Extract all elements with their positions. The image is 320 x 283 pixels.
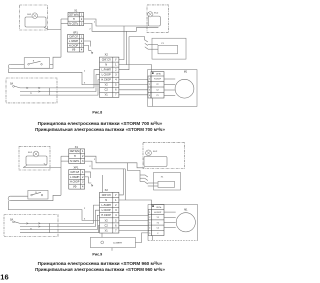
svg-text:Принципова електросхема витяжк: Принципова електросхема витяжки «STORM 7… (38, 121, 163, 126)
wire X2 row8 to motor pin4 sch2 (119, 230, 148, 232)
wire starter to motor pin5 (135, 233, 148, 243)
lamp EL2 (148, 12, 159, 17)
svg-text:L ЛАМП: L ЛАМП (101, 68, 111, 72)
wire mains long run to X2 sch2 (8, 201, 99, 221)
svg-text:N СЕТЬ: N СЕТЬ (69, 22, 79, 25)
svg-text:S: S (33, 61, 35, 63)
svg-text:5: 5 (115, 83, 117, 87)
caption 2 russian (35, 267, 165, 272)
svg-text:Х2: Х2 (105, 53, 109, 57)
lamp EL3 enclosure (dash-dot box) (19, 147, 50, 170)
wire drop to X2 row1 (119, 26, 124, 60)
motor M1 (175, 71, 194, 98)
svg-text:2: 2 (84, 71, 86, 73)
svg-text:L СКОР: L СКОР (102, 208, 111, 212)
speed switch SA (10, 83, 50, 96)
wire X2 row6 to motor pin2 sch2 (119, 219, 148, 221)
wire drop to X2 row2 and motor header sch2 (119, 169, 152, 205)
caption 1 russian (35, 127, 165, 132)
svg-text:У2: У2 (105, 218, 109, 222)
svg-text:L ЛАМП: L ЛАМП (70, 176, 79, 179)
wire X2 row7 to motor pin3 (119, 89, 148, 91)
svg-text:Х1: Х1 (74, 8, 78, 12)
node 2 (89, 29, 91, 31)
fan motor box M1 (148, 70, 197, 107)
lamp switch S box sch2 (28, 190, 48, 199)
svg-text:N: N (105, 63, 107, 67)
connector XP1 (68, 30, 84, 52)
svg-text:5: 5 (149, 233, 150, 235)
fan motor box M1 sch2 (148, 205, 198, 241)
svg-text:У1: У1 (105, 228, 109, 232)
relay contacts sch2 (145, 175, 158, 186)
node 3b (84, 83, 86, 85)
wire XP1 outputs (84, 41, 94, 54)
wire drop to X2 row2 and motor header (119, 31, 152, 71)
svg-text:L СКОР: L СКОР (102, 73, 111, 77)
wire SA speed2 to X2 sch2 (50, 210, 100, 226)
wire EL3 exit (23, 165, 61, 167)
page number (0, 272, 8, 281)
wire X2 row5 to motor pin1 sch2 (119, 214, 148, 216)
caption 2 ukrainian (38, 261, 163, 266)
svg-text:Сн.ВЕНТ: Сн.ВЕНТ (113, 242, 123, 244)
figure 9 label (92, 253, 102, 257)
wire switch right (50, 63, 53, 65)
svg-text:2: 2 (81, 40, 83, 43)
svg-text:3: 3 (84, 83, 86, 85)
svg-text:4: 4 (115, 213, 117, 217)
wire SA speed1 to X2 sch2 (50, 205, 100, 223)
svg-text:С2: С2 (105, 88, 109, 92)
svg-text:EL1: EL1 (28, 152, 33, 154)
svg-text:4: 4 (82, 186, 84, 189)
svg-text:М1: М1 (184, 71, 188, 73)
svg-text:У1: У1 (156, 95, 158, 97)
svg-text:У: У (115, 58, 117, 62)
wire X2 row6 to motor pin2 (119, 84, 148, 86)
svg-text:Х1: Х1 (75, 145, 79, 149)
wire EL1 exit (44, 27, 61, 29)
connector X1 (68, 8, 84, 25)
svg-text:2: 2 (89, 166, 91, 168)
wire mains long run to X2 (8, 68, 99, 84)
wire node to X1 sch2 (61, 156, 69, 167)
wire switch loop to mains (8, 30, 61, 69)
svg-text:2: 2 (82, 176, 84, 179)
lamp EL4 wiring loop (144, 157, 167, 167)
svg-text:5: 5 (115, 218, 117, 222)
svg-text:Рис.9: Рис.9 (92, 253, 102, 257)
wire riser to relay contact (129, 37, 145, 41)
wires motor connector to motor (164, 79, 175, 95)
svg-text:УФ: УФ (72, 49, 76, 52)
svg-text:С2: С2 (157, 228, 159, 230)
wire drop to X2 row1 sch2 (119, 169, 123, 195)
lamp EL2 enclosure (dash-dot box) (147, 5, 169, 33)
connector X2 (100, 53, 119, 98)
lamp EL3 wiring loop (26, 156, 47, 165)
svg-text:СИГ.СЛ: СИГ.СЛ (102, 193, 111, 197)
svg-text:1: 1 (82, 171, 84, 174)
wire X1 pin2 to lamp EL2 feed (84, 19, 149, 26)
svg-text:16: 16 (0, 272, 8, 281)
svg-text:П: П (30, 228, 32, 230)
svg-text:С2: С2 (105, 223, 109, 227)
wire X2 row8 to motor pin4 (119, 94, 148, 96)
wire X1 pin3 return (84, 23, 159, 31)
svg-text:2: 2 (115, 68, 117, 72)
svg-text:Н.СКОР: Н.СКОР (69, 44, 79, 47)
motor connector sch2 (148, 205, 164, 241)
svg-text:СИГ.СЛ: СИГ.СЛ (70, 171, 79, 174)
wire X1 pin2 to lamp EL4 feed (85, 156, 145, 168)
svg-text:2: 2 (149, 217, 150, 219)
svg-text:1: 1 (81, 14, 83, 17)
svg-text:М1: М1 (184, 210, 188, 212)
svg-text:3: 3 (115, 73, 117, 77)
svg-text:СИГ.СЛ: СИГ.СЛ (69, 36, 78, 39)
svg-text:УФ: УФ (73, 186, 77, 189)
svg-text:С2: С2 (156, 90, 158, 92)
connector X2 sch2 (100, 188, 119, 233)
motor connector (148, 72, 164, 107)
svg-text:1: 1 (115, 63, 117, 67)
svg-text:2: 2 (89, 29, 91, 31)
node 2b (84, 71, 86, 73)
relay contacts (145, 40, 158, 49)
node 1 sch2 (94, 159, 96, 161)
lamp switch S box (24, 58, 50, 68)
svg-text:Принципиальная электросхема вы: Принципиальная электросхема вытяжки «STO… (35, 267, 165, 272)
svg-text:2: 2 (82, 155, 84, 158)
svg-text:Принципиальная электросхема вы: Принципиальная электросхема вытяжки «STO… (35, 127, 165, 132)
svg-text:4: 4 (81, 49, 83, 52)
lamp EL2 wiring loop (148, 16, 160, 26)
svg-text:Н.СКОР: Н.СКОР (154, 79, 162, 81)
svg-text:3: 3 (81, 22, 83, 25)
starter box (90, 233, 135, 251)
lamp switch S contacts (28, 61, 43, 66)
svg-text:Принципова електросхема витяжк: Принципова електросхема витяжки «STORM 9… (38, 261, 163, 266)
svg-text:3: 3 (149, 90, 150, 92)
svg-text:4: 4 (149, 228, 150, 230)
svg-text:1: 1 (149, 79, 150, 81)
svg-text:ХР1: ХР1 (74, 166, 79, 170)
svg-text:1: 1 (94, 159, 96, 161)
svg-text:У1: У1 (161, 177, 164, 179)
svg-text:Н.СКОР: Н.СКОР (101, 213, 111, 217)
wire SA speed2 to X2 (50, 75, 100, 92)
svg-text:У2: У2 (105, 83, 109, 87)
wires motor connector to motor sch2 (164, 212, 176, 228)
lamp EL1 wiring loop (25, 17, 46, 27)
wire to relay sch2 (127, 163, 145, 182)
svg-text:У1: У1 (161, 43, 164, 45)
speed switch SA enclosure sch2 (dash-dot box) (4, 215, 58, 237)
svg-text:1: 1 (115, 198, 117, 202)
svg-text:SA: SA (10, 83, 14, 86)
svg-text:N СЕТЬ: N СЕТЬ (70, 160, 80, 163)
svg-text:Н.СКОР: Н.СКОР (101, 78, 111, 82)
node 3c (84, 219, 86, 221)
svg-text:СИГ.СЛ: СИГ.СЛ (102, 58, 111, 62)
svg-text:С: С (157, 233, 159, 235)
svg-text:СЕТЬ(N): СЕТЬ(N) (70, 150, 80, 153)
svg-text:Рис.8: Рис.8 (92, 110, 102, 114)
wire SA speed3 to X2 sch2 (50, 215, 100, 229)
svg-text:6: 6 (115, 223, 117, 227)
svg-text:4: 4 (115, 78, 117, 82)
svg-text:1: 1 (149, 212, 150, 214)
svg-text:3: 3 (149, 222, 150, 224)
svg-text:1: 1 (82, 150, 84, 153)
svg-text:СЕТЬ(N): СЕТЬ(N) (69, 14, 79, 17)
svg-text:7: 7 (115, 228, 117, 232)
svg-text:СЕТЬ: СЕТЬ (156, 207, 162, 209)
wire switch loop to mains sch2 (8, 168, 61, 201)
svg-text:L ЛАМП: L ЛАМП (69, 40, 78, 43)
svg-text:2: 2 (115, 203, 117, 207)
svg-text:Н.СКОР: Н.СКОР (154, 212, 162, 214)
node 1 (94, 21, 96, 23)
svg-text:7: 7 (115, 93, 117, 97)
svg-text:6: 6 (115, 88, 117, 92)
wire X2 row7 to motor pin3 sch2 (119, 224, 148, 226)
speed switch SA enclosure (dash-dot box) (6, 78, 57, 103)
connector X1 sch2 (69, 145, 85, 164)
relay box (152, 38, 186, 59)
lamp EL3 (28, 151, 46, 166)
wire drop to X2 row3 (119, 37, 129, 70)
svg-text:Н: Н (74, 155, 76, 158)
svg-text:2: 2 (81, 18, 83, 21)
wire SA speed1 to X2 (50, 70, 100, 88)
wire node to X1 (61, 19, 68, 30)
svg-text:N: N (105, 198, 107, 202)
svg-text:4: 4 (149, 95, 150, 97)
svg-text:У1: У1 (157, 217, 159, 219)
svg-text:3: 3 (115, 208, 117, 212)
svg-text:1: 1 (94, 21, 96, 23)
lamp EL1 (27, 13, 37, 19)
svg-text:3: 3 (82, 160, 84, 163)
figure 8 label (92, 110, 102, 114)
svg-text:EL2: EL2 (153, 151, 158, 153)
connector XP1 sch2 (69, 166, 85, 190)
wire XP1 outputs sch2 (85, 172, 103, 192)
wire X2 row5 to motor pin1 (119, 79, 148, 81)
svg-text:Н.СКОР: Н.СКОР (70, 181, 80, 184)
speed switch SA sch2 (10, 218, 50, 232)
svg-text:Н: Н (73, 18, 75, 21)
lamp switch S contacts sch2 (31, 192, 43, 196)
svg-text:3: 3 (82, 181, 84, 184)
svg-text:1: 1 (81, 36, 83, 39)
svg-text:У2: У2 (156, 84, 158, 86)
svg-text:У1: У1 (105, 93, 109, 97)
svg-text:Х2: Х2 (105, 188, 109, 192)
svg-text:СЕТЬ: СЕТЬ (156, 74, 162, 76)
svg-text:2: 2 (149, 84, 150, 86)
node 2c (84, 208, 86, 210)
node 2 sch2 (89, 166, 91, 168)
lamp EL4 (146, 150, 158, 156)
caption 1 ukrainian (38, 121, 163, 126)
motor M1 sch2 (176, 210, 195, 232)
lamp EL4 enclosure (dash-dot box) (143, 142, 185, 168)
wire SA speed3 to X2 (50, 80, 100, 95)
svg-text:ХР1: ХР1 (73, 30, 78, 34)
svg-text:EL2: EL2 (154, 13, 159, 15)
relay box sch2 (154, 173, 181, 191)
lamp EL1 enclosure (dash-dot box) (20, 5, 48, 30)
svg-text:У2: У2 (157, 222, 159, 224)
svg-text:3: 3 (81, 44, 83, 47)
wire X1 pin3 return sch2 (85, 161, 126, 169)
svg-text:У: У (115, 193, 117, 197)
wire SA speed4 to X2 sch2 (50, 225, 100, 232)
svg-text:2: 2 (84, 208, 86, 210)
svg-text:L ЛАМП: L ЛАМП (101, 203, 111, 207)
svg-text:EL1: EL1 (27, 14, 32, 16)
